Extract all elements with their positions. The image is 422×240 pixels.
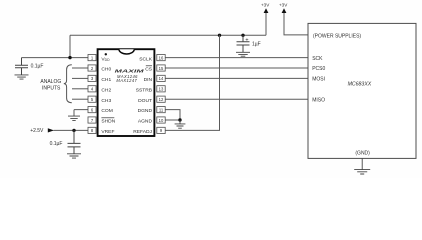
pin 11 <box>157 107 165 113</box>
pin 15 <box>157 65 165 71</box>
ground (below C2) <box>236 52 250 56</box>
brace (analog inputs) <box>64 65 72 103</box>
svg-text:0.1µF: 0.1µF <box>31 63 44 69</box>
svg-text:AGND: AGND <box>138 119 153 125</box>
svg-text:ANALOG: ANALOG <box>40 79 61 85</box>
capacitor C1 0.1uF (VDD bypass) <box>15 58 43 75</box>
pin 3 <box>88 75 96 81</box>
pin 9 <box>157 127 165 133</box>
svg-text:CH0: CH0 <box>101 67 111 73</box>
svg-text:MOSI: MOSI <box>312 77 325 83</box>
svg-text:INPUTS: INPUTS <box>42 86 61 92</box>
svg-text:15: 15 <box>159 66 164 71</box>
svg-text:SCK: SCK <box>312 56 323 62</box>
svg-text:SSTRB: SSTRB <box>136 87 152 93</box>
power +3V (left) <box>261 2 270 35</box>
svg-text:COM: COM <box>101 108 112 114</box>
svg-text:14: 14 <box>159 76 164 81</box>
wire REFADJ to rail <box>165 35 220 130</box>
wire VDD rail (top) <box>70 34 266 36</box>
wire SCLK to SCK <box>165 57 308 59</box>
notch <box>119 49 134 54</box>
wire CS to PCS0 <box>165 67 308 69</box>
capacitor C3 0.1uF (VREF bypass) <box>50 130 81 153</box>
pin 2 <box>88 65 96 71</box>
node AGND/DGND junction <box>178 118 181 121</box>
pin 16 <box>157 55 165 61</box>
pin 6 <box>88 107 96 113</box>
ground (below C1) <box>15 75 29 79</box>
svg-text:+3V: +3V <box>261 2 270 7</box>
node VREF junction <box>72 129 75 132</box>
pin 13 <box>157 86 165 92</box>
ground (COM) <box>68 116 80 121</box>
node rail-REFADJ junction <box>218 34 221 37</box>
svg-text:+: + <box>245 37 248 43</box>
svg-text:13: 13 <box>159 87 164 92</box>
wire DGND <box>165 110 180 120</box>
wire CH2 <box>72 88 88 90</box>
pin 12 <box>157 96 165 102</box>
ground (AGND) <box>175 120 186 128</box>
svg-text:VDD: VDD <box>101 56 110 62</box>
wire CH1 <box>72 77 88 79</box>
pin 1 index dot <box>105 53 107 55</box>
op-amp?? no: IC U1 MAX1246/MAX1247 body <box>98 49 155 136</box>
svg-text:CH3: CH3 <box>101 98 111 104</box>
svg-text:1µF: 1µF <box>252 41 261 47</box>
svg-text:(POWER SUPPLIES): (POWER SUPPLIES) <box>313 33 361 39</box>
svg-text:MAX1247: MAX1247 <box>116 78 137 83</box>
capacitor C2 1uF (polarized) <box>237 35 261 52</box>
svg-text:VREF: VREF <box>101 129 114 135</box>
wire DOUT to MISO <box>165 98 308 100</box>
svg-text:PCS0: PCS0 <box>312 66 325 72</box>
svg-text:SHDN: SHDN <box>101 119 115 125</box>
svg-text:16: 16 <box>159 55 164 60</box>
svg-text:11: 11 <box>159 107 164 112</box>
svg-text:12: 12 <box>159 97 164 102</box>
ground (MC683XX GND) <box>354 158 370 174</box>
pin 7 <box>88 117 96 123</box>
svg-text:10: 10 <box>159 118 164 123</box>
wire riser from VDD node to rail <box>69 35 71 57</box>
pin 5 <box>88 96 96 102</box>
svg-text:DIN: DIN <box>144 77 153 83</box>
svg-text:REFADJ: REFADJ <box>133 129 152 135</box>
wire DIN to MOSI <box>165 77 308 79</box>
pin 10 <box>157 117 165 123</box>
wire VDD to pin 1 <box>22 57 89 59</box>
wire CH3 <box>72 98 88 100</box>
svg-text:MC683XX: MC683XX <box>348 82 372 88</box>
wire COM to ground <box>74 110 88 116</box>
svg-text:CS: CS <box>145 67 153 73</box>
wire AGND <box>165 119 180 121</box>
power +2.5V input <box>30 128 88 134</box>
node rail-C2 junction <box>241 34 244 37</box>
svg-text:DGND: DGND <box>138 108 153 114</box>
pin 8 <box>88 127 96 133</box>
svg-text:SCLK: SCLK <box>139 56 153 62</box>
svg-text:+2.5V: +2.5V <box>30 128 44 134</box>
pin 14 <box>157 75 165 81</box>
svg-text:0.1µF: 0.1µF <box>50 141 63 147</box>
svg-text:DOUT: DOUT <box>138 98 152 104</box>
wire CH0 <box>72 67 88 69</box>
svg-text:CH2: CH2 <box>101 87 111 93</box>
IC U2 MC683XX block <box>308 23 416 158</box>
svg-text:+3V: +3V <box>279 2 288 7</box>
svg-text:(GND): (GND) <box>355 151 370 157</box>
svg-text:MISO: MISO <box>312 97 325 103</box>
power +3V (right) <box>279 2 308 35</box>
svg-text:CH1: CH1 <box>101 77 111 83</box>
node VDD junction <box>68 56 71 59</box>
pin 4 <box>88 86 96 92</box>
pin 1 <box>88 55 96 61</box>
ground (below C3) <box>67 154 81 158</box>
